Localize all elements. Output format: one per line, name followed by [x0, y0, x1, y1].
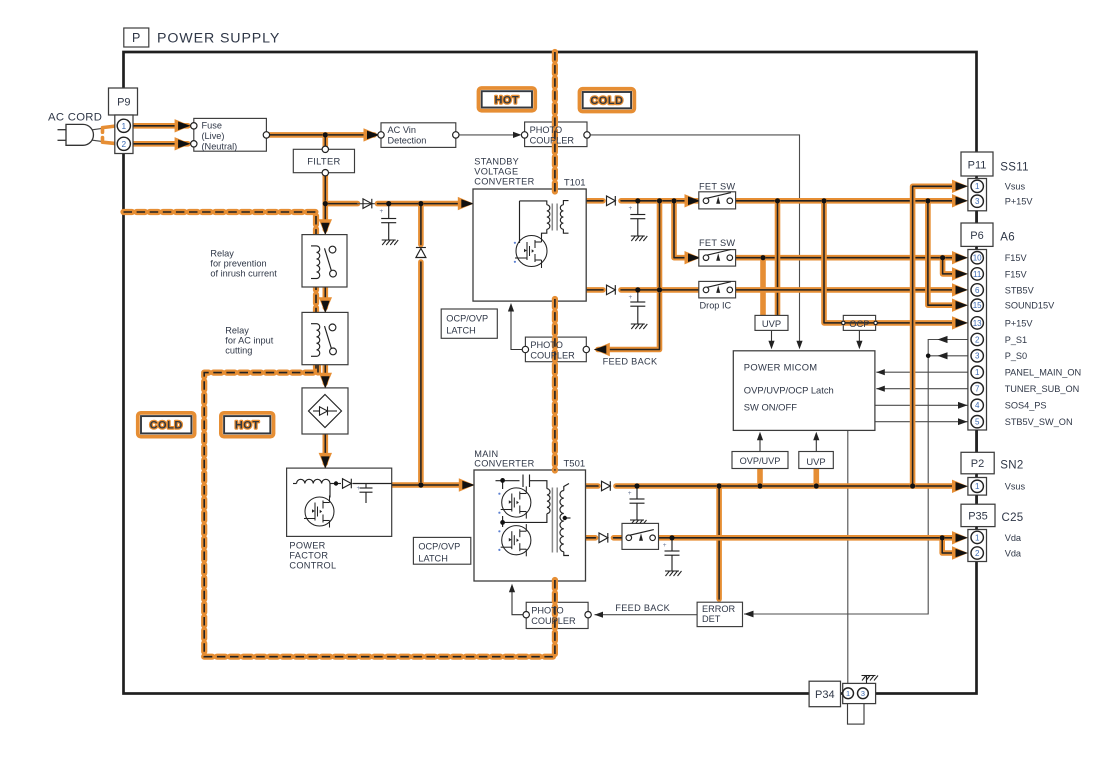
- wire filter to AC line junction: [322, 176, 328, 204]
- svg-text:7: 7: [975, 385, 980, 394]
- wire OCP to power micom: [858, 330, 860, 344]
- box photo coupler top: [525, 122, 587, 147]
- svg-text:Vsus: Vsus: [1005, 182, 1026, 192]
- title box P: [124, 28, 149, 47]
- wire OCP feed: [824, 201, 841, 323]
- wire OCP output to pin13 P+15V: [876, 320, 956, 326]
- svg-text:SOS4_PS: SOS4_PS: [1005, 401, 1047, 411]
- svg-text:CONVERTER: CONVERTER: [474, 177, 534, 187]
- svg-text:for AC input: for AC input: [225, 336, 273, 346]
- svg-text:P9: P9: [117, 97, 130, 109]
- wire dashed isolation boundary center: [552, 52, 558, 192]
- wire P_S0 from pin 3 down to error det: [744, 356, 971, 614]
- svg-text:FEED BACK: FEED BACK: [615, 603, 670, 613]
- wire UVP3 sense: [813, 469, 819, 487]
- svg-text:HOT: HOT: [494, 94, 519, 106]
- svg-text:PHOTO: PHOTO: [530, 125, 563, 135]
- svg-text:F15V: F15V: [1005, 253, 1028, 263]
- transistor Q2 standby mosfet: [515, 234, 547, 268]
- svg-text:1: 1: [975, 182, 980, 191]
- svg-text:UVP: UVP: [806, 456, 825, 467]
- wire UVP sense 1: [775, 201, 781, 315]
- label COLD top: [580, 89, 635, 112]
- wire P9 pin1 to fuse live: [103, 126, 117, 132]
- svg-text:10: 10: [973, 254, 982, 263]
- svg-text:P11: P11: [968, 160, 987, 172]
- inductor L1 PFC: [293, 483, 297, 485]
- wire UVP2 to power micom: [815, 436, 817, 452]
- pin 10 P6: [971, 252, 983, 264]
- svg-text:OVP/UVP/OCP Latch: OVP/UVP/OCP Latch: [744, 385, 834, 396]
- wire branch to pin11 F15V: [943, 258, 956, 274]
- wire error det to photo coupler feedback: [595, 614, 698, 616]
- wire standby output STB rail to drop IC and pin6 STB5V: [586, 287, 603, 293]
- svg-text:AC Vin: AC Vin: [388, 125, 416, 135]
- svg-text:11: 11: [973, 270, 982, 279]
- wire AC Vin Detection to photo coupler: [459, 134, 519, 136]
- svg-text:FET SW: FET SW: [699, 182, 735, 192]
- wire photo coupler to main converter: [512, 587, 526, 615]
- capacitor C2 with ground: [630, 201, 645, 236]
- svg-text:SOUND15V: SOUND15V: [1005, 301, 1055, 311]
- svg-text:5: 5: [975, 418, 980, 427]
- svg-text:P+15V: P+15V: [1005, 318, 1034, 328]
- label COLD left: [138, 413, 195, 437]
- svg-text:+: +: [628, 490, 632, 497]
- wire bridge rectifier to PFC: [322, 434, 328, 463]
- box drop IC switch: [699, 281, 736, 298]
- wire relay1 to relay2: [322, 287, 328, 308]
- svg-text:1: 1: [846, 689, 850, 698]
- wire Vda rail from main converter: [586, 535, 596, 541]
- svg-text:1: 1: [121, 121, 126, 131]
- box UVP sense: [755, 315, 788, 330]
- svg-text:1: 1: [975, 482, 980, 491]
- wire relay2 to bridge rectifier: [322, 365, 328, 383]
- box fuse: [194, 118, 267, 151]
- svg-text:PANEL_MAIN_ON: PANEL_MAIN_ON: [1005, 368, 1081, 378]
- node transformer center tap: [564, 517, 571, 519]
- svg-text:OCP/OVP: OCP/OVP: [418, 542, 460, 552]
- box error det: [697, 602, 742, 626]
- svg-text:POWER: POWER: [289, 541, 325, 551]
- box UVP sense 2: [799, 452, 834, 469]
- connector P6 A6: [961, 223, 993, 246]
- wire P9 pin2 to fuse neutral: [103, 138, 117, 144]
- pin 1 P6: [971, 366, 983, 378]
- node main converter node A: [502, 480, 504, 489]
- wire down to main converter rail: [418, 204, 424, 245]
- svg-text:+: +: [380, 208, 384, 215]
- svg-text:Relay: Relay: [225, 326, 249, 336]
- wire UVP to power micom: [771, 330, 773, 344]
- svg-text:ERROR: ERROR: [702, 604, 736, 614]
- svg-text:FILTER: FILTER: [307, 156, 340, 167]
- svg-text:P+15V: P+15V: [1005, 197, 1034, 207]
- pin 5 P6: [971, 416, 983, 428]
- box FET SW 1: [699, 192, 736, 209]
- svg-text:COUPLER: COUPLER: [531, 616, 576, 626]
- wire FET SW2 feed: [674, 201, 688, 258]
- svg-text:P2: P2: [971, 458, 984, 470]
- pin 2 P6: [971, 333, 983, 345]
- svg-text:OCP/OVP: OCP/OVP: [446, 314, 488, 324]
- svg-text:(Live): (Live): [202, 131, 225, 141]
- svg-text:4: 4: [975, 401, 980, 410]
- svg-text:2: 2: [975, 549, 980, 558]
- wire plug to P9 pin 2: [90, 140, 118, 144]
- connector P11 SS11: [961, 152, 993, 176]
- svg-text:A6: A6: [1000, 232, 1015, 244]
- svg-text:COLD: COLD: [590, 95, 623, 107]
- transistor Q1 PFC mosfet: [329, 484, 331, 498]
- box main converter T501: [474, 470, 586, 581]
- svg-text:POWER MICOM: POWER MICOM: [744, 362, 818, 373]
- box power micom: [733, 351, 875, 431]
- svg-text:Fuse: Fuse: [202, 121, 222, 131]
- svg-text:SW ON/OFF: SW ON/OFF: [744, 402, 797, 413]
- svg-text:AC CORD: AC CORD: [48, 112, 102, 124]
- wire micom SOS4_PS to pin 4: [875, 404, 968, 406]
- wire micom TUNER_SUB_ON from pin 7: [876, 388, 970, 390]
- diode D3 standby top output: [607, 196, 616, 206]
- wire P_S1 from pin 2: [928, 340, 970, 356]
- box OCP/OVP latch standby: [441, 309, 497, 338]
- pin 11 P6: [971, 268, 983, 280]
- svg-text:P6: P6: [970, 230, 983, 242]
- svg-text:STB5V_SW_ON: STB5V_SW_ON: [1005, 417, 1073, 427]
- svg-text:2: 2: [975, 335, 980, 344]
- box FET SW 2: [699, 250, 736, 267]
- svg-text:COLD: COLD: [150, 420, 183, 432]
- wire Vda rail to P35 pin1: [650, 535, 956, 541]
- svg-text:UVP: UVP: [762, 318, 781, 329]
- svg-text:VOLTAGE: VOLTAGE: [474, 167, 518, 177]
- wire AC line to standby converter: [325, 201, 357, 207]
- capacitor C3 with ground: [630, 290, 645, 324]
- wire OCP/OVP latch to standby converter: [511, 307, 525, 350]
- svg-text:+: +: [629, 294, 633, 301]
- svg-text:+: +: [357, 485, 361, 492]
- svg-text:FET SW: FET SW: [699, 238, 735, 248]
- ground earth at P34: [866, 676, 868, 683]
- bridge rectifier BD1: [302, 388, 348, 434]
- svg-text:P_S1: P_S1: [1005, 335, 1027, 345]
- svg-text:3: 3: [975, 197, 980, 206]
- diode D5 main top output: [602, 481, 611, 491]
- box OVP/UVP sense: [732, 452, 788, 469]
- svg-text:DET: DET: [702, 614, 721, 624]
- svg-text:OCP: OCP: [849, 318, 869, 329]
- wire PFC output to main converter: [392, 482, 466, 488]
- relay RL1 inrush current prevention: [302, 235, 347, 287]
- diode D1 AC line: [363, 199, 372, 209]
- connector P2 SN2: [961, 452, 994, 474]
- diode D7 PFC: [343, 479, 352, 489]
- wire relay chain down from filter: [322, 204, 328, 230]
- svg-text:LATCH: LATCH: [446, 326, 475, 336]
- svg-text:Vsus: Vsus: [1005, 482, 1026, 492]
- svg-text:of inrush current: of inrush current: [210, 269, 277, 279]
- capacitor C4 with ground: [630, 486, 645, 520]
- svg-text:cutting: cutting: [225, 346, 252, 356]
- svg-text:Drop IC: Drop IC: [700, 301, 732, 311]
- svg-text:(Neutral): (Neutral): [202, 142, 238, 152]
- wire arrow into FET SW1: [685, 194, 701, 207]
- svg-text:LATCH: LATCH: [418, 554, 447, 564]
- box standby voltage converter T101: [473, 189, 586, 301]
- svg-text:MAIN: MAIN: [474, 449, 498, 459]
- connector P34: [809, 681, 840, 707]
- wire standby output P+15V rail: [586, 198, 603, 204]
- pin 7 P6: [971, 383, 983, 395]
- capacitor C1 with ground: [381, 204, 396, 240]
- svg-text:13: 13: [973, 319, 982, 328]
- svg-text:COUPLER: COUPLER: [530, 136, 575, 146]
- box OCP/OVP latch main: [413, 537, 470, 564]
- svg-text:1: 1: [975, 533, 980, 542]
- svg-text:CONVERTER: CONVERTER: [474, 459, 534, 469]
- capacitor C6 PFC: [360, 484, 373, 504]
- wire plug to P9 pin 1: [90, 126, 118, 130]
- svg-text:COUPLER: COUPLER: [530, 351, 575, 361]
- diode D6 main lower output: [599, 533, 608, 543]
- svg-text:C25: C25: [1002, 512, 1024, 524]
- wire Vsus rail from main converter: [586, 483, 599, 489]
- svg-text:P_S0: P_S0: [1005, 351, 1027, 361]
- wire OVP/UVP sense: [757, 469, 763, 487]
- wire micom PANEL_MAIN_ON from pin 1: [876, 371, 970, 373]
- svg-text:FACTOR: FACTOR: [289, 551, 328, 561]
- pin 6 P6: [971, 284, 983, 296]
- box OCP sense: [843, 315, 875, 330]
- svg-text:P34: P34: [815, 689, 835, 701]
- wire error det feed: [716, 486, 722, 599]
- svg-text:F15V: F15V: [1005, 269, 1028, 279]
- junction dots: [926, 354, 931, 359]
- connector plug AC CORD: [58, 129, 67, 131]
- svg-text:Vda: Vda: [1005, 533, 1022, 543]
- pin 3 P6: [971, 350, 983, 362]
- wire dashed isolation boundary left loop: [124, 212, 555, 657]
- wire photo coupler to power micom: [590, 135, 799, 344]
- svg-text:PHOTO: PHOTO: [531, 606, 564, 616]
- label HOT top: [479, 88, 536, 111]
- svg-text:OVP/UVP: OVP/UVP: [740, 456, 781, 466]
- wire SOUND15V branch: [928, 201, 956, 305]
- svg-text:P35: P35: [968, 511, 988, 523]
- svg-text:SS11: SS11: [1000, 162, 1028, 174]
- pin 13 P6: [971, 317, 983, 329]
- svg-text:SN2: SN2: [1000, 460, 1023, 472]
- svg-text:CONTROL: CONTROL: [289, 561, 336, 571]
- svg-text:+: +: [629, 205, 633, 212]
- svg-text:1: 1: [975, 368, 980, 377]
- svg-text:Vda: Vda: [1005, 548, 1022, 558]
- diode D4 standby lower output: [607, 285, 616, 295]
- box power factor control: [287, 468, 392, 536]
- wire fuse output to AC Vin detection: [270, 132, 374, 138]
- box photo coupler middle: [525, 337, 586, 362]
- svg-text:STANDBY: STANDBY: [474, 157, 519, 167]
- wire OVP/UVP to power micom: [759, 436, 761, 452]
- wire feedback tap down to photo coupler: [657, 201, 663, 290]
- svg-text:P: P: [132, 31, 140, 45]
- capacitor C7 main converter: [496, 480, 520, 482]
- wire power micom to connector P34: [847, 430, 849, 688]
- svg-text:T101: T101: [564, 178, 586, 189]
- svg-text:T501: T501: [564, 459, 586, 470]
- wire FET SW2 output to pin10 F15V: [730, 255, 956, 261]
- svg-text:6: 6: [975, 286, 980, 295]
- svg-text:for prevention: for prevention: [210, 259, 266, 269]
- box AC Vin Detection: [381, 123, 456, 148]
- box FILTER: [293, 149, 354, 172]
- relay RL2 AC input cutting: [302, 312, 348, 364]
- svg-text:PHOTO: PHOTO: [530, 340, 563, 350]
- transformer T501 windings: [547, 489, 550, 514]
- svg-text:2: 2: [121, 139, 126, 149]
- svg-text:FEED BACK: FEED BACK: [603, 357, 658, 367]
- diode D2 rail link: [416, 248, 426, 257]
- svg-text:+: +: [663, 542, 667, 549]
- wire micom STB5V_SW_ON to pin 5: [875, 421, 968, 423]
- transistor Q4 main mosfet low: [501, 524, 531, 556]
- capacitor C5 with ground: [665, 538, 680, 571]
- wire UVP sense 2: [760, 258, 766, 315]
- svg-text:STB5V: STB5V: [1005, 285, 1035, 295]
- pin 15 P6: [971, 299, 983, 311]
- label HOT left: [221, 413, 274, 437]
- svg-text:HOT: HOT: [235, 420, 260, 432]
- box output switch Vda: [622, 523, 659, 549]
- svg-text:3: 3: [861, 689, 865, 698]
- connector P35 C25: [961, 504, 995, 526]
- svg-text:3: 3: [975, 352, 980, 361]
- svg-text:Relay: Relay: [210, 249, 234, 259]
- svg-text:Detection: Detection: [388, 136, 427, 146]
- transistor Q3 main mosfet high: [501, 486, 531, 518]
- pin 4 P6: [971, 399, 983, 411]
- module border frame P: [124, 52, 977, 694]
- svg-text:POWER SUPPLY: POWER SUPPLY: [157, 31, 280, 47]
- box photo coupler bottom: [526, 602, 588, 628]
- wire branch to pin2 Vda: [942, 538, 956, 553]
- wire Vsus up to P11 pin1: [913, 186, 956, 486]
- svg-text:15: 15: [973, 301, 982, 310]
- connector P9: [109, 88, 138, 115]
- svg-text:TUNER_SUB_ON: TUNER_SUB_ON: [1005, 384, 1080, 394]
- wire junction to filter: [322, 135, 328, 146]
- node main converter node B: [502, 516, 504, 527]
- transformer T101: [520, 201, 547, 205]
